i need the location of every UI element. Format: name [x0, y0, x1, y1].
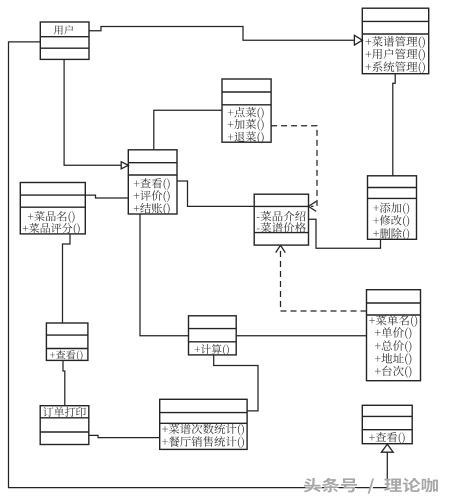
wire 查看/评价/结账 -> 菜品介绍	[177, 181, 254, 206]
label +系统管理()	[365, 61, 425, 73]
arrowhead triangle at admin box	[354, 35, 362, 45]
arrowhead triangle at 查看/评价/结账	[121, 162, 128, 169]
wire 查看L -> 订单打印	[63, 360, 65, 405]
wire 计算 -> 菜单名	[236, 335, 366, 337]
label +菜品评分()	[23, 223, 80, 235]
label +删除()	[373, 228, 409, 240]
class box: admin (菜谱管理/用户管理/系统管理)	[362, 8, 428, 74]
label +地址()	[375, 353, 412, 365]
label +菜谱次数统计()	[162, 423, 244, 435]
class box: 菜品名/菜品评分	[20, 183, 85, 234]
wire 结账 -> 计算	[140, 214, 189, 336]
open arrow at 菜品介绍 right	[309, 201, 317, 211]
label +点菜()	[228, 107, 264, 119]
class box: 计算	[189, 316, 237, 355]
open arrow at 菜品介绍 bottom	[276, 245, 286, 252]
label +修改()	[373, 215, 409, 227]
label +计算()	[195, 344, 229, 355]
label +餐厅销售统计()	[162, 436, 244, 448]
label +台次()	[375, 366, 412, 378]
watermark 头条号 / 理论咖	[305, 479, 439, 495]
label 用户	[54, 25, 73, 35]
label +菜谱管理()	[365, 36, 425, 48]
wire 查看/评价/结账 top -> 点菜 left	[154, 110, 222, 150]
label +查看() (B13)	[369, 432, 405, 444]
wire 用户 -> admin (generalization)	[89, 27, 354, 41]
class box: 菜谱次数统计/餐厅销售统计	[160, 399, 247, 449]
label +总价()	[375, 340, 412, 352]
wire 菜品介绍 -> 添加 box	[309, 219, 381, 248]
label +添加()	[373, 203, 409, 215]
label +加菜()	[228, 119, 264, 131]
class box: 用户 (User)	[40, 22, 89, 59]
label +菜单名()	[369, 315, 417, 327]
dashed dependency 点菜 -> 菜品介绍	[271, 126, 317, 207]
class box: 查看 (bottom right)	[362, 405, 412, 443]
wire 用户 -> 查看R (long left/bottom path)	[9, 42, 388, 488]
wire 菜品名 -> 查看L	[63, 234, 71, 323]
wire 计算 -> 统计 box	[214, 355, 258, 411]
label +查看() (B4)	[134, 178, 170, 190]
wire 用户 -> 查看/评价/结账 (generalization)	[64, 59, 121, 165]
wire 订单打印 -> 统计 box	[89, 435, 160, 437]
dashed dependency 菜单名 -> 菜品介绍	[281, 247, 367, 311]
class box: 点菜/加菜/退菜	[222, 79, 271, 142]
class box: 菜单名/单价/总价/地址/台次	[367, 290, 421, 381]
label +用户管理()	[365, 49, 425, 61]
label +评价()	[134, 190, 170, 202]
class box: 订单打印	[40, 406, 89, 445]
label +菜品名()	[28, 211, 75, 223]
class box: 添加/修改/删除	[368, 176, 417, 240]
wire admin -> 添加 box	[393, 74, 395, 176]
label -菜谱价格	[257, 222, 306, 233]
class box: 查看 (left)	[46, 323, 88, 360]
label +结账()	[134, 203, 170, 215]
label 订单打印	[43, 407, 86, 417]
class box: 菜品介绍/菜谱价格	[254, 194, 308, 245]
label +单价()	[375, 327, 412, 339]
wire 菜品名 -> 查看/评价/结账	[85, 195, 128, 198]
label -菜品介绍	[257, 211, 306, 222]
label +查看() (B9)	[50, 350, 82, 361]
label +退菜()	[228, 132, 264, 144]
arrowhead triangle under 查看R	[381, 444, 393, 452]
class box: 查看/评价/结账	[128, 150, 177, 214]
